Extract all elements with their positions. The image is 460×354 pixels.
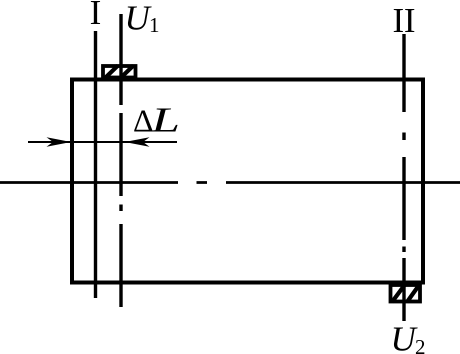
svg-text:I: I — [90, 0, 102, 32]
svg-text:1: 1 — [149, 13, 160, 37]
svg-text:II: II — [393, 1, 416, 40]
gauge axis line U1 (vertical dash-dot) — [119, 14, 122, 307]
svg-text:Δ: Δ — [133, 103, 154, 139]
specimen body rectangle — [72, 80, 423, 283]
horizontal centre line (dash-dot axis) — [0, 181, 460, 184]
gauge axis line U2 (vertical dash-dot) — [402, 34, 405, 321]
strain gauge block at section I (hatched) — [103, 66, 136, 79]
section line I — [94, 31, 97, 298]
dimension arrowhead pointing left (tip at gauge line U1) — [125, 137, 150, 147]
svg-text:2: 2 — [415, 335, 426, 354]
svg-text:L: L — [150, 101, 180, 140]
dimension line for ΔL — [28, 141, 177, 143]
strain gauge block at section II (hatched) — [391, 285, 421, 303]
dimension arrowhead pointing right (tip at specimen left edge) — [47, 137, 72, 147]
